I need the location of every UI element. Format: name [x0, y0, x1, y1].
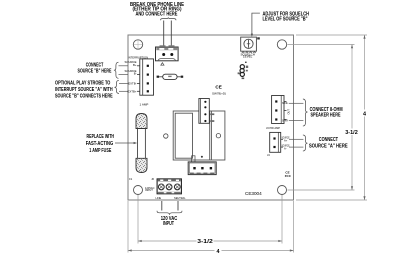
svg-text:LEVEL OF SOURCE "B": LEVEL OF SOURCE "B"	[263, 17, 308, 23]
board outline CE3004 PCB	[128, 35, 294, 200]
silkscreen squelch level	[240, 52, 255, 58]
source A connector J4	[270, 132, 283, 152]
capacitor cluster	[238, 62, 249, 80]
brace under phone label	[161, 17, 177, 20]
brace group strobe	[114, 80, 119, 93]
svg-text:EXTB-: EXTB-	[128, 81, 136, 85]
svg-text:SW78(+D): SW78(+D)	[212, 92, 226, 96]
label: connect 8-ohm speaker	[310, 107, 343, 119]
svg-text:FCC: FCC	[285, 174, 292, 178]
svg-text:B+: B+	[133, 63, 137, 67]
wire leader source A-	[289, 146, 303, 148]
wire ring	[170, 21, 172, 51]
brace source A	[303, 135, 308, 151]
brace 120 VAC	[157, 211, 182, 215]
svg-text:EXTB+: EXTB+	[128, 89, 137, 93]
brace group B	[114, 62, 119, 78]
switch SW1 dip	[199, 99, 214, 124]
svg-text:OPTIONAL PLAY STROBE TO: OPTIONAL PLAY STROBE TO	[55, 80, 110, 86]
interruption header J2	[128, 55, 154, 95]
svg-text:SOURCE "A" HERE: SOURCE "A" HERE	[309, 144, 348, 150]
fuse F1	[136, 114, 147, 173]
svg-text:CONNECT: CONNECT	[319, 137, 338, 143]
svg-text:OUT: OUT	[287, 109, 291, 115]
svg-text:1 AMP: 1 AMP	[140, 103, 149, 107]
label: 120 VAC INPUT	[161, 216, 178, 227]
svg-text:A-: A-	[284, 146, 287, 150]
mounting hole bottom-left	[134, 186, 143, 195]
hole left of transformer	[164, 134, 168, 138]
svg-text:CONNECT: CONNECT	[86, 62, 104, 68]
label: optional play strobe	[55, 80, 113, 99]
hole right in transformer	[216, 134, 220, 138]
svg-text:NEUTRAL: NEUTRAL	[174, 196, 186, 200]
label: replace with fuse	[86, 134, 115, 154]
svg-text:INPUT: INPUT	[163, 221, 174, 227]
brace speaker	[303, 99, 308, 126]
svg-text:A+: A+	[284, 139, 288, 143]
silk LINE / NEUTRAL	[156, 196, 186, 200]
label: adjust for squelch	[263, 11, 310, 22]
svg-text:INPUT: INPUT	[145, 188, 153, 192]
wire leader SPKR-	[289, 120, 303, 122]
wire to pin EXTB-	[119, 82, 128, 84]
svg-text:1 AMP FUSE: 1 AMP FUSE	[89, 148, 111, 154]
svg-text:CE3004: CE3004	[245, 191, 262, 196]
svg-text:J4: J4	[267, 153, 270, 157]
polarity triangle mark	[161, 63, 164, 65]
dimension bottom 3-1/2	[138, 195, 282, 244]
power terminal block TB1	[157, 179, 181, 194]
resistor R1	[157, 74, 184, 79]
wire leader SPKR+	[289, 102, 303, 104]
dimension right 4	[296, 35, 367, 200]
pin silk labels	[125, 60, 137, 93]
svg-text:SPEAKER HERE: SPEAKER HERE	[311, 113, 342, 119]
label: connect source A here	[309, 137, 348, 150]
mounting hole top-left	[133, 40, 142, 49]
wire AC neutral	[177, 201, 179, 211]
label: connect source B here	[78, 62, 112, 74]
svg-text:B-: B-	[134, 72, 137, 76]
svg-text:AND CONNECT HERE: AND CONNECT HERE	[136, 12, 179, 18]
dimension bottom 4	[128, 201, 294, 253]
svg-text:F1: F1	[129, 177, 133, 181]
svg-text:J3 PRI AMP: J3 PRI AMP	[266, 126, 280, 130]
svg-text:FAST-ACTING: FAST-ACTING	[86, 141, 114, 147]
connector J1 phone terminal block	[156, 45, 179, 61]
mounting hole bottom-right	[278, 186, 287, 195]
fuse arrow	[115, 142, 135, 144]
svg-text:SPKR+: SPKR+	[282, 101, 289, 105]
wire to pin source B+	[119, 65, 129, 67]
svg-text:3-1/2: 3-1/2	[345, 130, 358, 136]
wire to pin source B-	[119, 74, 129, 76]
svg-text:J6: J6	[151, 177, 154, 181]
leader to trimpot	[252, 13, 260, 34]
connector E1-E3 under transformer	[188, 156, 216, 175]
svg-text:REPLACE WITH: REPLACE WITH	[87, 134, 115, 140]
wire leader source A+	[289, 138, 303, 140]
svg-text:LEVEL: LEVEL	[243, 54, 253, 58]
svg-text:4: 4	[363, 111, 366, 117]
svg-text:4: 4	[217, 249, 220, 255]
svg-text:INTERRUPT SOURCE "A" WITH: INTERRUPT SOURCE "A" WITH	[55, 87, 113, 93]
wire to pin EXTB+	[119, 90, 128, 92]
svg-text:SOURCE "B" CONNECTS HERE: SOURCE "B" CONNECTS HERE	[55, 93, 113, 99]
svg-text:SPKR-: SPKR-	[282, 119, 289, 123]
svg-text:3-1/2: 3-1/2	[197, 239, 213, 245]
label: break one phone line	[130, 2, 185, 18]
silk agency marks	[285, 170, 292, 178]
mounting hole top-right	[277, 40, 286, 49]
dimension right 3-1/2	[288, 45, 355, 191]
svg-text:SOURCE "B" HERE: SOURCE "B" HERE	[78, 69, 112, 75]
wire AC line	[161, 201, 163, 211]
silk 120VAC INPUT near hole	[145, 186, 155, 192]
trimpot R squelch	[241, 37, 260, 53]
svg-text:LINE: LINE	[156, 196, 162, 200]
wire tip	[163, 21, 165, 51]
transformer T1	[173, 111, 225, 160]
svg-text:CE: CE	[215, 85, 221, 90]
silk SPKR labels	[282, 101, 291, 122]
speaker connector J3	[272, 96, 287, 124]
